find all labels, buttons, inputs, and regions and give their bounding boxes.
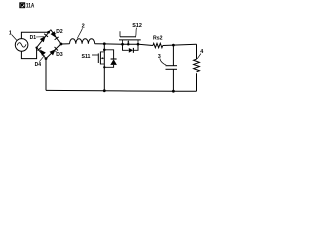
node left vertex [35, 46, 37, 48]
leader for label 3 [160, 59, 166, 66]
leader for label 1 [12, 35, 17, 41]
wire top rail [95, 44, 153, 46]
svg-text:D1: D1 [30, 35, 37, 41]
leader S12 [135, 28, 138, 37]
diode D4 [40, 50, 46, 56]
leader D4 [39, 55, 44, 61]
node bottom vertex [45, 57, 48, 60]
leader D3 [55, 50, 57, 52]
transistor S12 [119, 39, 141, 41]
leader for label 2 [77, 28, 82, 38]
inductor L2 [61, 43, 70, 45]
diode D1 [40, 36, 46, 42]
svg-text:S11: S11 [82, 54, 91, 60]
node S11 diode bottom junction [103, 66, 105, 68]
capacitor C3 [172, 45, 174, 66]
wire right edge bottom [196, 73, 198, 91]
svg-text:D4: D4 [35, 62, 42, 68]
figure title glyph 図 [20, 3, 25, 8]
wire S11 branch vertical [103, 44, 105, 91]
wire bridge edge L-T [37, 30, 51, 48]
node S12 middle junction [127, 43, 130, 46]
wire bridge edge B-R [46, 44, 61, 59]
svg-text:Rs2: Rs2 [153, 36, 163, 42]
node right vertex [60, 43, 63, 46]
wire bridge edge T-R [51, 30, 61, 44]
node AC-top junction [47, 31, 50, 34]
diode S12 antiparallel [123, 44, 139, 50]
svg-text:3: 3 [158, 54, 161, 60]
wire AC top lead [21, 32, 48, 39]
svg-text:S12: S12 [132, 23, 142, 29]
diode D3 [50, 49, 56, 55]
node C3 bottom junction [172, 90, 175, 93]
leader D2 [53, 33, 56, 35]
resistor Rs2 [153, 43, 163, 47]
wire rail after Rs2 [163, 44, 197, 45]
node S12 right junction [137, 43, 140, 46]
svg-text:D2: D2 [56, 29, 63, 35]
node S11 diode top junction [103, 49, 106, 52]
leader D1 [36, 36, 44, 38]
wire AC bottom lead [21, 48, 36, 59]
svg-text:11A: 11A [26, 3, 35, 10]
wire bottom rail [46, 89, 197, 92]
wire bridge bottom to rail [45, 59, 47, 91]
leader for label 4 [197, 54, 201, 59]
ac source V1 circle [15, 39, 28, 52]
wire bridge edge L-B [37, 48, 46, 59]
node S12 left junction [121, 43, 124, 46]
wire right edge top [196, 44, 198, 59]
svg-text:1: 1 [9, 31, 12, 37]
resistor load 4 [194, 59, 200, 72]
diode D2 [51, 31, 57, 38]
svg-text:D3: D3 [56, 52, 63, 58]
transistor S11 [99, 52, 101, 65]
node rail junction above S11 [103, 42, 106, 45]
node rail junction above C3 [172, 44, 175, 47]
node S11 bottom rail junction [103, 89, 106, 92]
diode S11 antiparallel [104, 50, 113, 68]
